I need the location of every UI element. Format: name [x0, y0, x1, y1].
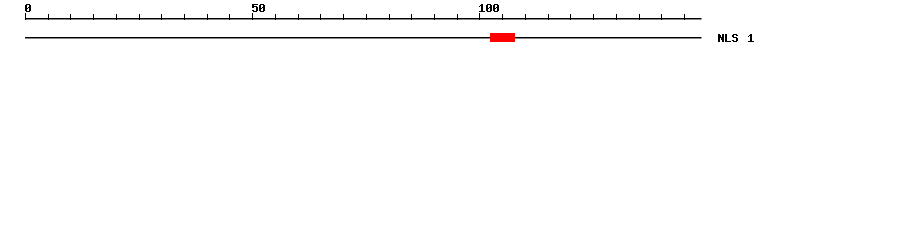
minor tick 55 — [275, 14, 277, 20]
sequence line soft edge — [25, 38, 702, 40]
minor tick 35 — [184, 14, 186, 20]
minor tick 10 — [70, 14, 72, 20]
major tick 0 — [25, 13, 27, 20]
ruler axis line — [25, 18, 702, 20]
label 1 — [748, 34, 754, 42]
ruler axis line soft edge — [25, 19, 702, 21]
minor tick 80 — [389, 14, 391, 20]
minor tick 65 — [320, 14, 322, 20]
label NLS — [718, 34, 738, 42]
minor tick 90 — [434, 14, 436, 20]
minor tick 75 — [366, 14, 368, 20]
label 0 — [25, 4, 31, 12]
minor tick 25 — [139, 14, 141, 20]
minor tick 40 — [207, 14, 209, 20]
label 50 — [252, 4, 265, 12]
minor tick 85 — [411, 14, 413, 20]
major tick 100 — [479, 13, 481, 20]
minor tick 130 — [616, 14, 618, 20]
minor tick 135 — [639, 14, 641, 20]
minor tick 125 — [593, 14, 595, 20]
minor tick 45 — [229, 14, 231, 20]
minor tick 120 — [570, 14, 572, 20]
label 100 — [479, 4, 499, 12]
minor tick 110 — [525, 14, 527, 20]
minor tick 20 — [116, 14, 118, 20]
minor tick 115 — [548, 14, 550, 20]
sequence line — [25, 37, 702, 39]
minor tick 145 — [684, 14, 686, 20]
minor tick 60 — [298, 14, 300, 20]
feature box NLS 1 — [490, 33, 515, 42]
minor tick 70 — [343, 14, 345, 20]
minor tick 140 — [661, 14, 663, 20]
major tick 50 — [252, 13, 254, 20]
minor tick 15 — [93, 14, 95, 20]
minor tick 30 — [161, 14, 163, 20]
minor tick 105 — [502, 14, 504, 20]
minor tick 5 — [48, 14, 50, 20]
minor tick 95 — [457, 14, 459, 20]
